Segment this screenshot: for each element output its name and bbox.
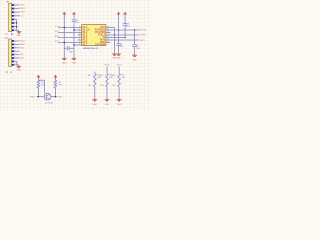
ground GND P2 [16,65,21,72]
wire P1 pin2 [14,8,19,10]
IC right pin 15 [106,39,111,41]
wire R2 to node [37,88,39,97]
svg-text:DTR1: DTR1 [19,12,25,14]
wire to capacitor C2 [73,15,75,19]
wire hook to collector [38,79,44,81]
IC left pin 3 [78,32,82,34]
IC right pin 14 [106,42,111,44]
ground GND P1 [17,31,22,38]
svg-text:GPI1: GPI1 [19,47,25,49]
wire P2 pin4 [14,50,19,52]
svg-text:8: 8 [79,43,80,45]
wire riser VCC left [63,15,65,57]
wire into Q1 [37,96,45,98]
connector P1 body [9,3,12,32]
IC left pin 2 [78,29,82,31]
capacitor C4 [123,24,127,26]
svg-text:GND: GND [117,104,122,106]
svg-text:RXD1: RXD1 [19,8,26,10]
wire P1 ground tie vertical [16,19,18,30]
IC left pin 8 [78,44,82,46]
wire net P3.7 [58,32,78,34]
svg-text:RXD1: RXD1 [141,30,148,32]
IC right pin 20 [106,27,111,29]
IC left pin 5 [78,37,82,39]
IC left pin 4 [78,34,82,36]
ground GND R4 [92,98,97,106]
wire riser right A [118,15,120,43]
svg-text:GND: GND [132,59,137,61]
capacitor C3 [67,46,69,50]
wire out of Q1 [51,96,57,98]
svg-text:RST/VPP: RST/VPP [95,44,105,46]
svg-text:GND: GND [62,63,67,65]
junction [73,29,74,30]
wire R4 to ground [94,87,96,98]
wire P1 pin8 [14,29,17,31]
junction [73,44,74,45]
svg-text:GND: GND [72,63,77,65]
wire riser right B lower [124,26,126,37]
svg-text:VCC: VCC [55,26,60,28]
connector P2 pin 6 [12,57,14,59]
IC right pin 17 [106,34,111,36]
IC left pin 1 [78,27,82,29]
ground GND drop A [112,53,117,59]
wire net VCC right [110,34,139,36]
resistor R5 [106,73,109,87]
wire net VCC [58,27,78,29]
power VCC arrow left B [73,12,76,16]
junction [114,34,115,35]
junction [118,29,119,30]
power VCC arrow Q left [37,75,40,79]
wire net XT1 [58,42,78,44]
svg-text:10u: 10u [75,22,78,24]
svg-text:4K7: 4K7 [59,85,62,87]
resistor R3 [54,80,57,88]
svg-text:TXD2: TXD2 [19,41,25,43]
connector P2 pin 5 [12,54,14,56]
svg-text:SEL1: SEL1 [19,58,25,60]
wire drop pin20 to ground [113,28,115,53]
IC left pin 7 [78,42,82,44]
wire R3 to node [54,88,56,97]
capacitor C5 [132,45,136,47]
junction [64,27,65,28]
svg-text:GND: GND [93,104,98,106]
wire P1 pin1 [14,4,19,6]
wire P1 pin8 to ground [17,29,19,31]
wire P2 pin8 [14,64,17,66]
wire P1 pin3 [14,11,19,13]
junction [16,26,17,27]
wire riser below C2 [73,23,75,58]
power VCC arrow left A [63,12,66,16]
transistor Q1 [44,93,51,100]
connector P1 pin 6 [12,22,14,24]
ground GND R6 [117,98,122,106]
connector P1 pin 5 [12,19,14,21]
IC left pin 6 [78,39,82,41]
connector P2 pin 8 [12,64,14,66]
svg-text:GND: GND [17,35,22,37]
power VCC arrow right A [117,12,120,16]
wire C6 to ground [118,46,120,53]
svg-text:TXD1: TXD1 [140,35,146,37]
svg-text:GND: GND [16,70,21,72]
IC right pin 19 [106,29,111,31]
connector P1 pin 2 [12,8,14,10]
svg-text:TXD: TXD [57,97,62,99]
wire P1 pin5 [14,18,17,20]
power VCC arrow Q right [54,75,57,79]
wire xtal to pin [74,44,78,46]
IC right pin 18 [106,32,111,34]
svg-text:Q1 9013: Q1 9013 [45,102,54,104]
wire cap C2 to pin [74,29,78,31]
wire to C3 right [69,47,74,49]
wire to R4 [94,72,96,74]
junction [64,42,65,43]
connector P2 pin 4 [12,50,14,52]
connector P2 pin 3 [12,47,14,49]
wire P2 pin6 [14,57,19,59]
ground GND right [132,54,137,61]
connector P2 pin 7 [12,61,14,63]
wire P2 pin8 to ground [17,64,19,66]
wire P2 pin7 [14,60,17,62]
wire [54,79,56,80]
resistor R6 [118,73,121,87]
connector P2 body [9,39,12,66]
ground GND left A [62,57,67,64]
ground GND drop B [116,53,121,59]
IC right pin 16 [106,37,111,39]
junction [55,96,56,97]
wire to R6 [118,66,120,73]
connector P1 pin 3 [12,11,14,13]
wire P1 pin4 [14,15,20,17]
wire bypass lower [134,47,136,54]
junction [16,22,17,23]
svg-text:RXD: RXD [30,97,35,99]
connector P1 pin 8 [12,29,14,31]
wire pin20 over [110,27,114,29]
wire riser right B upper [124,15,126,23]
wire P2 pin3 [14,47,19,49]
connector P2 pin 2 [12,44,14,46]
connector P1 pin 4 [12,15,14,17]
wire P2 ground tie vertical [16,61,18,64]
resistor R2 [37,80,40,88]
svg-text:RST: RST [55,36,60,38]
junction [38,96,39,97]
svg-text:GND: GND [116,57,121,59]
wire to R5 [106,66,108,73]
connector P2 pin 1 [12,40,14,42]
ground GND left B [72,57,77,64]
resistor R4 [94,73,97,87]
wire to C3 left [64,47,67,49]
svg-text:14: 14 [107,41,109,43]
wire R6 to ground [118,87,120,98]
wire collector drop [44,80,46,93]
svg-text:GP2: GP2 [19,54,24,56]
wire P1 pin7 [14,26,17,28]
svg-text:RXD2: RXD2 [19,44,26,46]
svg-text:TXD1: TXD1 [19,5,25,7]
connector P1 pin 1 [12,4,14,6]
wire net INT [110,39,139,41]
svg-text:AT89C2051-12: AT89C2051-12 [84,47,99,50]
wire [37,79,39,80]
wire net P3.0 [110,29,140,31]
svg-text:4K7: 4K7 [41,85,44,87]
capacitor C6 [116,44,120,46]
wire P2 pin1 [14,40,19,42]
power VCC arrow right B [124,12,127,16]
wire net XTAL2 [110,37,125,39]
svg-text:P3.7: P3.7 [55,31,60,33]
connector P1 pin 7 [12,26,14,28]
wire bypass upper [134,30,136,44]
wire net RST [58,37,78,39]
svg-text:GND: GND [105,104,110,106]
wire P2 pin2 [14,43,19,45]
op IC U1 body [82,25,106,46]
wire P2 pin5 [14,54,19,56]
wire R5 to ground [106,87,108,98]
svg-text:INT0: INT0 [140,40,146,42]
capacitor C2 [72,20,76,22]
wire P1 pin6 [14,22,17,24]
junction [124,37,125,38]
ground GND R5 [105,98,110,106]
svg-text:P1.7: P1.7 [83,44,88,46]
junction [134,29,135,30]
svg-text:104: 104 [120,46,123,48]
